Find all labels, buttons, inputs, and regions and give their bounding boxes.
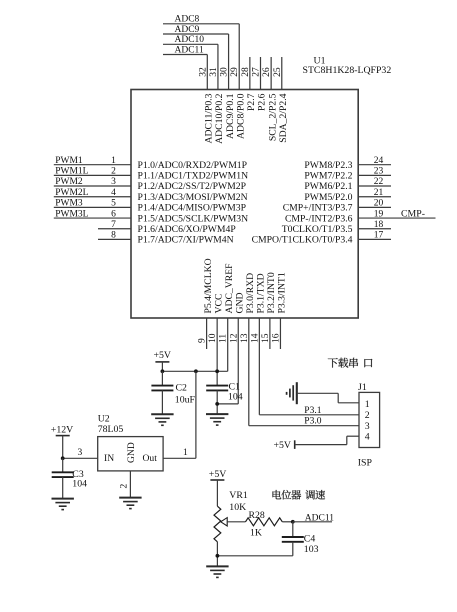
ground C1 (206, 414, 228, 425)
wire pin 20 stub (358, 206, 391, 208)
wire pin 25 stub (281, 57, 283, 90)
svg-text:26: 26 (262, 67, 272, 77)
power symbol +5V rail (155, 361, 169, 363)
svg-text:P1.0/ADC0/RXD2/PWM1P: P1.0/ADC0/RXD2/PWM1P (138, 160, 248, 171)
svg-text:PWM6/P2.1: PWM6/P2.1 (304, 181, 352, 192)
svg-text:32: 32 (198, 67, 208, 77)
wire net ADC9 (163, 33, 229, 35)
wire U2 GND pin 2 (129, 471, 131, 498)
svg-text:3: 3 (365, 421, 370, 432)
svg-text:23: 23 (374, 167, 384, 177)
svg-text:P5.4/MCLKO: P5.4/MCLKO (203, 258, 214, 313)
svg-text:ADC_VREF: ADC_VREF (224, 263, 235, 314)
wire pin 16 stub (279, 318, 281, 349)
svg-text:P1.1/ADC1/TXD2/PWM1N: P1.1/ADC1/TXD2/PWM1N (138, 171, 249, 182)
wire +5V to J1 pin4 (295, 444, 347, 446)
svg-text:1K: 1K (250, 527, 262, 538)
wire pin 7 stub (98, 228, 131, 230)
junction regulator feed (194, 369, 198, 373)
wire regulator output up to rail (195, 371, 197, 458)
header 下载串口 caption (328, 358, 373, 368)
svg-text:5: 5 (111, 199, 116, 209)
svg-text:T0CLKO/T1/P3.5: T0CLKO/T1/P3.5 (282, 224, 353, 235)
junction C1/GND (215, 402, 219, 406)
wire pin 9 stub (206, 318, 208, 349)
wire U2 input (63, 457, 98, 459)
junction +12V/C3 (61, 456, 65, 460)
regulator U2 78L05 body (98, 437, 163, 471)
svg-text:24: 24 (374, 156, 384, 166)
wire pin 1 net PWM1 (54, 164, 131, 166)
wire +5V stem (161, 362, 163, 371)
svg-text:P3.3/INT1: P3.3/INT1 (277, 272, 288, 313)
svg-text:ADC8/P0.0: ADC8/P0.0 (235, 93, 246, 139)
svg-text:P2.6: P2.6 (257, 93, 268, 111)
caption 电位器调速 (273, 490, 326, 500)
svg-text:30: 30 (220, 67, 230, 77)
svg-text:31: 31 (209, 67, 219, 77)
wire C2 top (161, 371, 163, 385)
wire pin 12 GND down (237, 318, 239, 404)
capacitor C2 plates (151, 386, 173, 391)
wire pin 14 P3.1 down (258, 318, 260, 415)
svg-text:PWM3: PWM3 (55, 199, 83, 209)
svg-text:GND: GND (234, 293, 245, 314)
svg-text:P1.4/ADC4/MISO/PWM3P: P1.4/ADC4/MISO/PWM3P (138, 203, 246, 214)
wire pin 11 ADC_VREF down to +5V rail (227, 318, 229, 371)
wire pin 4 net PWM2L (54, 196, 131, 198)
svg-text:CMP-: CMP- (401, 208, 425, 219)
wire pin 15 stub (269, 318, 271, 349)
svg-text:1: 1 (365, 399, 370, 410)
wire C1 bottom (216, 390, 218, 414)
svg-text:P3.1/TXD: P3.1/TXD (256, 273, 267, 313)
svg-text:P3.0/RXD: P3.0/RXD (245, 273, 256, 314)
connector J1 body (359, 392, 380, 447)
power symbol +12V (56, 435, 70, 437)
svg-text:22: 22 (374, 177, 384, 187)
junction +5V/C2 (161, 369, 165, 373)
svg-text:P1.5/ADC5/SCLK/PWM3N: P1.5/ADC5/SCLK/PWM3N (138, 213, 249, 224)
svg-text:18: 18 (374, 220, 384, 230)
svg-text:1: 1 (111, 156, 116, 166)
svg-text:20: 20 (374, 199, 384, 209)
svg-text:C4: C4 (304, 534, 316, 545)
wire net ADC8 (163, 23, 239, 25)
svg-text:10uF: 10uF (175, 394, 196, 405)
svg-text:GND: GND (126, 442, 137, 463)
svg-text:C2: C2 (176, 383, 188, 394)
svg-text:ADC11: ADC11 (305, 513, 334, 523)
power symbol +5V J1 (vertical bar) (294, 440, 296, 449)
wire P3.1 to J1 pin2 (259, 414, 359, 416)
wire VR1 bottom (216, 542, 218, 567)
svg-text:4: 4 (365, 432, 370, 443)
wire net ADC11 (163, 54, 207, 56)
svg-text:VCC: VCC (213, 294, 224, 314)
svg-text:78L05: 78L05 (98, 424, 124, 435)
ground VR1 (206, 566, 228, 577)
svg-text:7: 7 (111, 220, 116, 230)
wire VR1 top (216, 480, 218, 506)
svg-text:27: 27 (252, 67, 262, 77)
svg-text:PWM5/P2.0: PWM5/P2.0 (304, 192, 352, 203)
svg-text:P3.2/INT0: P3.2/INT0 (266, 272, 277, 313)
wire wiper to R28 (227, 521, 245, 523)
svg-text:ADC8: ADC8 (175, 15, 200, 25)
capacitor C3 plates (52, 472, 74, 477)
wire pin 2 net PWM1L (54, 174, 131, 176)
wire U2 output (163, 457, 196, 459)
svg-text:19: 19 (374, 209, 384, 219)
wire pin 22 stub (358, 185, 391, 187)
capacitor C4 plates (282, 537, 304, 542)
svg-text:SDA_2/P2.4: SDA_2/P2.4 (278, 93, 289, 142)
svg-text:P1.2/ADC2/SS/T2/PWM2P: P1.2/ADC2/SS/T2/PWM2P (138, 181, 246, 192)
svg-text:Out: Out (143, 453, 158, 464)
ground U2 (119, 498, 141, 509)
wire pin 23 stub (358, 174, 391, 176)
svg-text:6: 6 (111, 209, 116, 219)
wire pin 13 P3.0 down (248, 318, 250, 426)
svg-text:17: 17 (374, 231, 384, 241)
svg-text:ADC11: ADC11 (175, 45, 204, 55)
wire pin 10 VCC down to +5V rail and C1 (216, 318, 218, 386)
wire J1 pin1 to ground (297, 392, 338, 394)
svg-text:4: 4 (111, 188, 116, 198)
svg-text:+12V: +12V (51, 424, 73, 435)
svg-text:P3.0: P3.0 (304, 417, 321, 427)
wire pin 19 net CMP- (358, 217, 435, 219)
svg-text:ISP: ISP (358, 458, 373, 469)
resistor R28 zigzag (246, 518, 283, 526)
svg-text:ADC9: ADC9 (175, 25, 200, 35)
svg-text:P3.1: P3.1 (304, 406, 321, 416)
wire pin 8 stub (98, 238, 131, 240)
svg-text:PWM1: PWM1 (55, 156, 83, 166)
svg-text:+5V: +5V (274, 440, 292, 451)
svg-text:1: 1 (183, 448, 188, 458)
svg-text:28: 28 (241, 67, 251, 77)
wire ADC10 vertical to pin 31 (217, 44, 219, 89)
svg-text:CMP+/INT3/P3.7: CMP+/INT3/P3.7 (283, 203, 353, 214)
svg-text:29: 29 (230, 67, 240, 77)
svg-text:PWM1L: PWM1L (55, 167, 88, 177)
wire pin 17 stub (358, 238, 391, 240)
junction VR1/ground (216, 554, 220, 558)
wire C2 bottom (161, 390, 163, 414)
wire pin 26 stub (270, 57, 272, 90)
junction VCC (215, 369, 219, 373)
potentiometer VR1 zigzag (214, 506, 221, 542)
svg-text:8: 8 (111, 231, 116, 241)
wire C3 top (62, 458, 64, 472)
junction R28/C4/ADC11 (291, 520, 295, 524)
VR1 wiper arrow (221, 518, 228, 526)
svg-text:PWM7/P2.2: PWM7/P2.2 (304, 171, 352, 182)
capacitor C1 plates (206, 386, 228, 391)
wire ADC9 vertical to pin 30 (228, 34, 230, 90)
svg-text:2: 2 (365, 410, 370, 421)
svg-text:103: 103 (304, 544, 319, 555)
svg-text:3: 3 (111, 177, 116, 187)
wire R28 to node (282, 521, 293, 523)
svg-text:VR1: VR1 (229, 490, 248, 501)
wire pin 3 net PWM2 (54, 185, 131, 187)
wire net ADC10 (163, 43, 218, 45)
wire pin 27 stub (260, 57, 262, 90)
svg-text:ADC9/P0.1: ADC9/P0.1 (225, 93, 236, 139)
wire +12V stem (62, 436, 64, 459)
svg-text:J1: J1 (358, 382, 367, 393)
wire pin 6 net PWM3L (54, 217, 131, 219)
svg-text:ADC10/P0.2: ADC10/P0.2 (214, 93, 225, 143)
wire ADC11 vertical to pin 32 (206, 55, 208, 90)
op-amp/MCU body U1 STC8H1K28-LQFP32 (131, 90, 358, 319)
svg-text:SCL_2/P2.5: SCL_2/P2.5 (267, 93, 278, 141)
svg-text:2: 2 (120, 484, 130, 489)
svg-text:10K: 10K (229, 502, 246, 513)
wire C4 bottom (292, 542, 294, 556)
wire bottom return (217, 555, 292, 557)
svg-text:ADC11/P0.3: ADC11/P0.3 (204, 93, 215, 143)
svg-text:2: 2 (111, 167, 116, 177)
wire pin 28 stub (249, 57, 251, 90)
svg-text:PWM2L: PWM2L (55, 188, 88, 198)
svg-text:IN: IN (104, 453, 114, 464)
wire pin 5 net PWM3 (54, 206, 131, 208)
power symbol +5V VR1 (210, 479, 224, 481)
ground J1 pin1 (rotated) (287, 382, 297, 404)
svg-text:ADC10: ADC10 (175, 35, 205, 45)
svg-text:104: 104 (72, 479, 87, 490)
svg-text:R28: R28 (249, 510, 265, 521)
svg-text:+5V: +5V (154, 350, 172, 361)
svg-text:STC8H1K28-LQFP32: STC8H1K28-LQFP32 (303, 65, 392, 76)
wire pin 18 stub (358, 228, 391, 230)
wire net ADC11 (293, 521, 332, 523)
wire ADC8 vertical to pin 29 (238, 24, 240, 90)
svg-text:3: 3 (78, 448, 83, 458)
svg-text:25: 25 (273, 67, 283, 77)
svg-text:21: 21 (374, 188, 384, 198)
svg-text:P1.6/ADC6/XO/PWM4P: P1.6/ADC6/XO/PWM4P (138, 224, 236, 235)
svg-text:P2.7: P2.7 (246, 93, 257, 111)
wire pin 24 stub (358, 164, 391, 166)
wire pin 21 stub (358, 196, 391, 198)
wire C4 top (292, 522, 294, 537)
svg-text:PWM3L: PWM3L (55, 209, 88, 219)
svg-text:P1.3/ADC3/MOSI/PWM2N: P1.3/ADC3/MOSI/PWM2N (138, 192, 248, 203)
svg-text:PWM2: PWM2 (55, 177, 83, 187)
wire P3.0 to J1 pin3 (249, 425, 359, 427)
svg-text:104: 104 (228, 391, 243, 402)
svg-text:P1.7/ADC7/XI/PWM4N: P1.7/ADC7/XI/PWM4N (138, 235, 234, 246)
wire +5V rail (162, 370, 227, 372)
svg-text:+5V: +5V (209, 469, 227, 480)
wire pin 12 GND across to C1 bottom (217, 403, 238, 405)
ground C3 (52, 499, 74, 510)
svg-text:PWM8/P2.3: PWM8/P2.3 (304, 160, 352, 171)
ground C2 (151, 414, 173, 425)
svg-text:CMP-/INT2/P3.6: CMP-/INT2/P3.6 (285, 213, 353, 224)
svg-text:CMPO/T1CLKO/T0/P3.4: CMPO/T1CLKO/T0/P3.4 (252, 235, 353, 246)
wire C3 bottom (62, 477, 64, 499)
